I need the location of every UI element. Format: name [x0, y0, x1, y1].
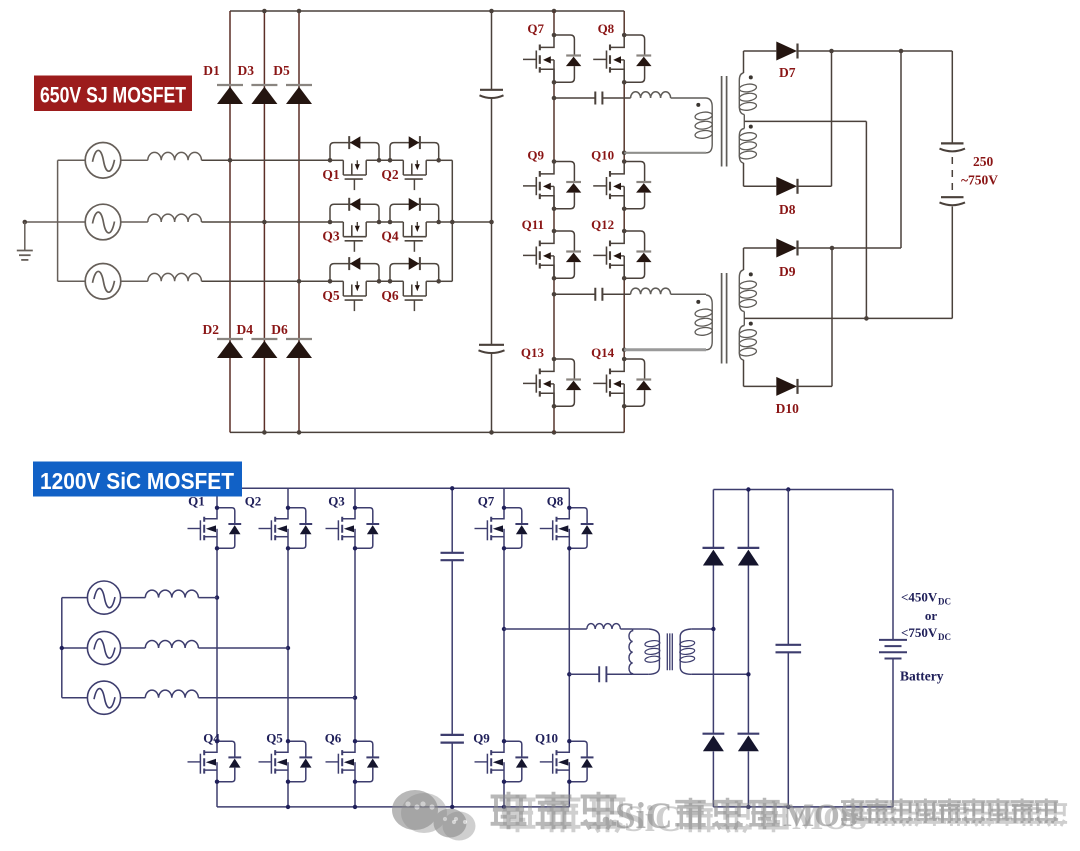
svg-text:Q5: Q5	[322, 288, 340, 303]
svg-text:or: or	[925, 608, 938, 623]
svg-text:Battery: Battery	[900, 669, 944, 684]
svg-text:D7: D7	[779, 65, 796, 80]
svg-text:Q13: Q13	[521, 345, 545, 360]
svg-text:SiC: SiC	[624, 799, 682, 840]
svg-text:Q6: Q6	[325, 731, 342, 746]
svg-text:Q1: Q1	[322, 167, 340, 182]
svg-text:Q11: Q11	[522, 217, 544, 232]
svg-text:250: 250	[973, 154, 994, 169]
svg-text:D2: D2	[203, 322, 220, 337]
svg-text:Q10: Q10	[591, 148, 614, 163]
svg-text:<750V: <750V	[901, 625, 938, 640]
svg-text:Q10: Q10	[535, 731, 558, 746]
svg-text:Q8: Q8	[598, 21, 615, 36]
svg-text:DC: DC	[938, 597, 951, 607]
svg-text:D5: D5	[273, 63, 290, 78]
svg-text:D6: D6	[271, 322, 288, 337]
svg-text:Q9: Q9	[527, 148, 544, 163]
svg-text:650V SJ MOSFET: 650V SJ MOSFET	[40, 83, 186, 108]
svg-text:D3: D3	[238, 63, 255, 78]
svg-text:<450V: <450V	[901, 590, 938, 605]
svg-text:D8: D8	[779, 202, 796, 217]
svg-text:Q3: Q3	[322, 229, 340, 244]
svg-text:Q2: Q2	[381, 167, 399, 182]
svg-text:Q6: Q6	[381, 288, 399, 303]
svg-text:D10: D10	[776, 401, 799, 416]
svg-text:D9: D9	[779, 264, 796, 279]
svg-text:Q5: Q5	[266, 731, 283, 746]
svg-text:Q14: Q14	[591, 345, 615, 360]
svg-text:1200V SiC MOSFET: 1200V SiC MOSFET	[40, 468, 234, 494]
svg-text:D4: D4	[237, 322, 254, 337]
svg-text:DC: DC	[938, 632, 951, 642]
svg-text:Q2: Q2	[245, 494, 262, 509]
svg-text:Q7: Q7	[478, 494, 495, 509]
svg-text:MOS: MOS	[792, 801, 867, 837]
svg-text:~750V: ~750V	[961, 173, 998, 188]
svg-text:Q7: Q7	[527, 21, 544, 36]
svg-text:Q4: Q4	[381, 229, 399, 244]
svg-text:Q12: Q12	[591, 217, 614, 232]
svg-text:Q9: Q9	[473, 731, 490, 746]
svg-text:Q3: Q3	[328, 494, 345, 509]
svg-text:Q8: Q8	[547, 494, 564, 509]
svg-text:D1: D1	[203, 63, 220, 78]
svg-text:Q4: Q4	[203, 731, 220, 746]
